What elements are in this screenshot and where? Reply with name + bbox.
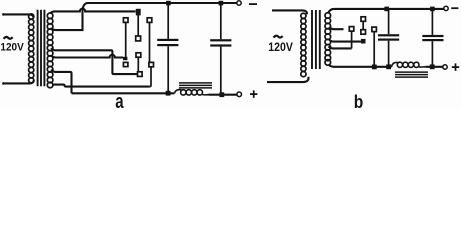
filter choke L2 core (circuit b) bbox=[395, 72, 428, 77]
wire: secondary tap 2 to top output rail riser bbox=[51, 13, 82, 31]
wire: bottom rail right (positive) circuit a bbox=[209, 94, 237, 96]
wire: secondary top lead to top rail (circuit b) bbox=[328, 9, 444, 13]
wire: bottom rail left (circuit a) bbox=[72, 92, 175, 94]
terminal: negative output (circuit a) bbox=[237, 1, 241, 5]
capacitor C4 (output filter, circuit b) bbox=[422, 9, 443, 65]
rectifier contact square E (left, junction with tap 4) bbox=[123, 57, 127, 60]
rectifier center lower stem bbox=[137, 57, 139, 72]
capacitor C3 (input filter, circuit b) bbox=[378, 9, 399, 65]
rectifier contact square D (center lower) bbox=[136, 53, 141, 57]
value label 120V (circuit b) bbox=[268, 41, 293, 54]
transformer T1 secondary winding bbox=[47, 13, 53, 88]
rectifier contact stack center: junction square on secondary top lead bbox=[136, 9, 141, 16]
wire: AC input bottom lead (circuit a) bbox=[3, 80, 34, 83]
capacitor C1 (input filter, circuit a) bbox=[157, 3, 178, 92]
filter choke L2 winding (circuit b) bbox=[392, 62, 426, 67]
transformer T2 primary winding bbox=[301, 13, 306, 76]
svg-text:a: a bbox=[115, 90, 124, 109]
junction: capacitor C3 top bbox=[384, 7, 389, 12]
transformer T1 core bbox=[38, 10, 45, 87]
wire: AC input top lead (circuit a) bbox=[3, 14, 34, 17]
AC source label ~ (circuit a) bbox=[4, 37, 13, 39]
wire: secondary tap 4 to left contact, jumps over tap-3 riser bbox=[51, 55, 123, 58]
rectifier reed stem (center) bbox=[137, 14, 139, 36]
terminal: positive output (circuit a) bbox=[237, 92, 242, 97]
wire: secondary top lead (node to rectifier reed), jumps over vertical riser bbox=[51, 9, 136, 13]
svg-text:120V: 120V bbox=[268, 41, 293, 54]
wire: secondary tap 3 down to center bottom contact bbox=[51, 48, 137, 74]
wire: secondary tap 2 to contact lower square (circuit b) bbox=[329, 39, 361, 41]
polarity label + (circuit b) bbox=[452, 63, 459, 70]
rectifier contact square C (center upper) bbox=[136, 36, 141, 41]
junction: capacitor C2 bottom bbox=[219, 92, 224, 97]
wire: top output rail (negative) circuit a bbox=[83, 3, 237, 13]
wire: secondary bottom lead to bottom rail (circuit b) bbox=[329, 65, 392, 67]
rectifier right post stem down to bottom rail (circuit b) bbox=[373, 32, 375, 67]
terminal dot: AC input bottom (circuit a) bbox=[2, 82, 5, 85]
rectifier contact square G (center bottom) bbox=[138, 72, 143, 77]
wire: AC input top lead (circuit b) bbox=[272, 10, 307, 14]
rectifier contact square lower (circuit b) bbox=[361, 39, 366, 44]
rectifier contact square upper (circuit b) bbox=[361, 30, 366, 35]
rectifier right post stem bbox=[149, 22, 151, 62]
rectifier right post terminal square (circuit b) bbox=[372, 27, 377, 32]
rectifier right lower stem to secondary bottom wire bbox=[150, 67, 151, 87]
rectifier right post terminal square bbox=[147, 18, 152, 23]
junction: right post on bottom rail (circuit b) bbox=[372, 65, 377, 70]
junction: capacitor C2 top bbox=[219, 1, 224, 6]
transformer T1 primary winding bbox=[29, 14, 34, 83]
wire: secondary bottom lead bbox=[53, 85, 150, 87]
svg-text:120V: 120V bbox=[0, 41, 24, 54]
rectifier reed terminal square (circuit b) bbox=[361, 17, 366, 22]
rectifier reed stem (circuit b) bbox=[362, 21, 364, 29]
wire: secondary tap 3 (circuit b) bbox=[329, 46, 352, 48]
polarity label - (circuit a) bbox=[249, 3, 257, 5]
rectifier left post stem (circuit b) bbox=[351, 31, 353, 48]
wire: AC input bottom lead (circuit b) bbox=[267, 77, 309, 82]
junction: capacitor C3 bottom bbox=[386, 64, 391, 69]
figure label a bbox=[115, 90, 124, 113]
rectifier contact square F (left lower, hollow) bbox=[123, 62, 128, 66]
rectifier left post stem bbox=[125, 22, 127, 57]
terminal: positive output (circuit b) bbox=[443, 65, 447, 69]
value label 120V (circuit a) bbox=[0, 41, 24, 54]
transformer T2 core bbox=[312, 10, 320, 69]
transformer T2 secondary winding bbox=[325, 13, 331, 66]
terminal dot: AC input top (circuit a) bbox=[2, 13, 5, 16]
rectifier left post terminal square bbox=[123, 18, 128, 23]
rectifier left post terminal square (circuit b) bbox=[349, 27, 354, 32]
capacitor C2 (output filter, circuit a) bbox=[210, 3, 231, 93]
AC source label ~ (circuit b) bbox=[274, 36, 283, 38]
junction: capacitor C1 top bbox=[166, 1, 171, 6]
wire: bottom rail right to positive terminal (circuit b) bbox=[425, 66, 443, 68]
figure label b bbox=[354, 92, 364, 112]
junction: capacitor C4 top bbox=[430, 7, 435, 12]
svg-text:b: b bbox=[354, 92, 364, 109]
polarity label + (circuit a) bbox=[250, 90, 257, 97]
polarity label - (circuit b) bbox=[451, 7, 458, 9]
filter choke L1 winding bbox=[175, 90, 209, 96]
junction: capacitor C1 bottom bbox=[166, 91, 171, 96]
rectifier contact square H (right, hollow) bbox=[149, 62, 154, 66]
terminal: negative output (circuit b) bbox=[444, 6, 448, 10]
wire: secondary tap stub (circuit b) bbox=[329, 27, 343, 29]
wire: secondary tap 5 down to bottom rail bbox=[51, 70, 71, 94]
filter choke L1 core bbox=[179, 83, 212, 88]
junction: capacitor C4 bottom bbox=[430, 64, 435, 69]
